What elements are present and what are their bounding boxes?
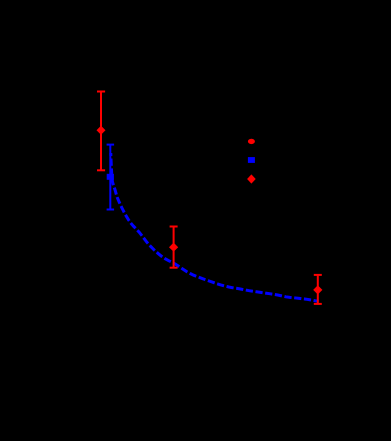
- legend marker: red diamond: [247, 174, 256, 183]
- blue dashed fit curve: [111, 153, 319, 301]
- legend marker: red circle: [248, 139, 255, 144]
- red error bar point 2: [169, 227, 178, 268]
- red error bar point 1: [97, 92, 106, 171]
- red error bar point 3: [313, 275, 322, 304]
- legend marker: blue square: [248, 157, 255, 163]
- blue error bar point: [107, 145, 115, 210]
